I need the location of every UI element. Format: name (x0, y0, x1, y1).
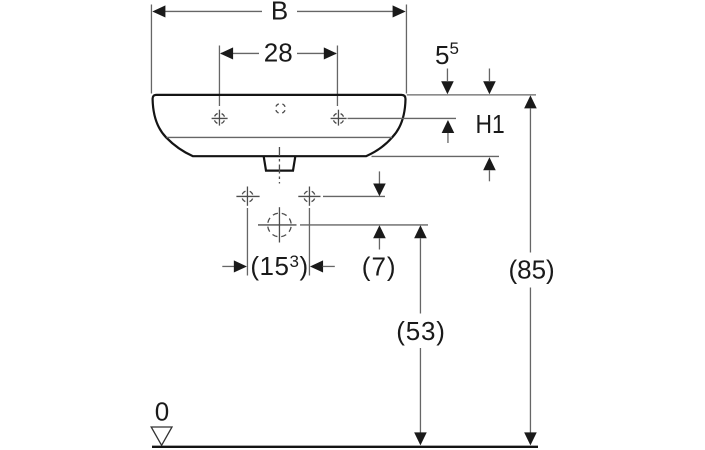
floor line (152, 446, 538, 448)
dimension (53): line upper part (419, 238, 421, 313)
tap hole left: crosshair (212, 117, 228, 119)
svg-text:B: B (271, 0, 288, 26)
dimension 28: extension line left (218, 46, 220, 107)
dimension (15 3): right outside arrow (310, 260, 323, 272)
dimension (15 3): extension line right (308, 208, 310, 276)
dimension (53): line lower part (419, 348, 421, 433)
datum triangle (151, 427, 172, 445)
dimension 5(5): upper down-arrow at x447 (446, 69, 448, 82)
top edge extension line (right) (407, 94, 536, 96)
dimension (85): line upper part (529, 108, 531, 252)
drain trap circle: dashed (268, 213, 292, 237)
drain axis extension line to right (300, 224, 428, 226)
mounting hole left: crosshair (236, 195, 259, 197)
dimension B: arrow right (393, 5, 406, 17)
mounting hole left: dashed circle (242, 191, 253, 202)
washbasin outline (front view) (153, 95, 406, 156)
dimension B: extension line left (150, 5, 152, 94)
overflow hole: dashed circle (center) (276, 104, 286, 114)
svg-text:(153): (153) (250, 251, 308, 281)
dimension 5(5): lower up-arrow to tap axis (442, 120, 455, 133)
drain trap circle: vertical crosshair (278, 207, 280, 242)
mounting hole axis extension to right (323, 195, 385, 197)
dimension B: extension line right (405, 5, 407, 94)
dimension (15 3): left outside arrow (222, 265, 234, 267)
dimension H1 upper down-arrow at x489 (488, 69, 490, 82)
tap hole left: dashed circle (214, 113, 225, 124)
mounting hole right: dashed circle (304, 191, 315, 202)
tap hole right: dashed circle (333, 113, 344, 124)
drain centerline (dash-dot) (278, 147, 280, 184)
washbasin inner rim line (167, 136, 393, 138)
dimension (15 3): extension line left (246, 208, 248, 276)
svg-text:(53): (53) (396, 316, 445, 346)
tap hole axis extension line (right) (348, 117, 457, 119)
dimension (85): line lower part (529, 288, 531, 433)
drain outlet box (264, 156, 296, 170)
svg-text:0: 0 (155, 396, 169, 426)
dimension B: dimension line (164, 10, 262, 12)
dimension 28: dimension line (221, 52, 259, 54)
svg-text:H1: H1 (476, 111, 505, 140)
dimension (53): down-arrow at floor (414, 432, 427, 445)
svg-text:(7): (7) (362, 252, 397, 282)
dimension (7): upper down-arrow (378, 171, 380, 183)
drain trap circle: horizontal crosshair (258, 224, 297, 226)
basin bottom extension line (right) (372, 155, 500, 157)
svg-text:28: 28 (264, 37, 293, 67)
dimension (85): up-arrow at top (524, 95, 537, 108)
dimension (53): up-arrow at drain axis (414, 225, 427, 238)
dimension 28: arrow right (324, 47, 337, 59)
dimension H1: lower up-arrow to basin bottom line (483, 157, 496, 170)
dimension (7): lower up-arrow (373, 225, 386, 238)
dimension B: arrow left (152, 5, 165, 17)
dimension (85): down-arrow at floor (524, 432, 537, 445)
tap hole right: crosshair (331, 117, 347, 119)
dimension 28: arrow left (220, 47, 233, 59)
dimension 28: extension line right (336, 46, 338, 107)
mounting hole right: crosshair (298, 195, 320, 197)
svg-text:(85): (85) (508, 255, 554, 285)
